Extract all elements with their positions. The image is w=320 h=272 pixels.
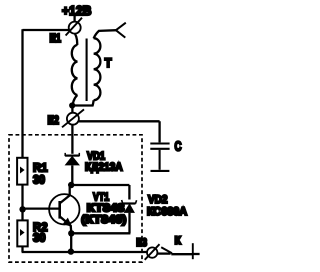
wire: VD1 to collector node: [71, 166, 73, 186]
connector: HV output fork: [116, 23, 126, 38]
junction: emitter on bottom rail: [68, 248, 74, 254]
capacitor C: [150, 144, 169, 170]
wire: E2 down into module to VD1: [71, 125, 73, 154]
transformer T primary winding: [72, 45, 78, 95]
transistor VT1 collector lead: [60, 186, 70, 204]
svg-text:КД213А: КД213А: [85, 162, 123, 174]
wire: E3 to switch: [157, 252, 170, 254]
junction: emitter node: [68, 230, 74, 236]
svg-text:(КТ840): (КТ840): [81, 214, 126, 226]
transistor VT1 emitter lead: [60, 216, 72, 232]
svg-text:КС680А: КС680А: [147, 206, 187, 218]
junction: collector node: [68, 182, 74, 188]
wire: top horizontal from left corner to E1: [23, 29, 69, 31]
transistor VT1 base bar: [58, 201, 61, 219]
diode VD1: [65, 153, 79, 165]
connector E2 (plug/socket): [62, 109, 84, 127]
wire: R2 bottom to rail corner: [21, 246, 23, 252]
svg-text:30: 30: [33, 172, 45, 186]
junction: base/divider node on rail: [19, 206, 25, 212]
wire: rail between R1 and R2: [21, 185, 23, 221]
wire: left rail from top corner down to R1: [21, 29, 23, 158]
switch K blade: [161, 247, 172, 253]
svg-text:VD2: VD2: [148, 194, 168, 206]
svg-text:Т: Т: [105, 56, 112, 70]
wire: collector node right to VD2 branch: [71, 185, 129, 200]
wire: secondary top to HV output: [94, 30, 117, 38]
transformer core: [86, 39, 88, 102]
svg-text:Е3: Е3: [136, 237, 147, 249]
connector E1 (plug/socket): [66, 14, 82, 36]
svg-text:К: К: [175, 235, 181, 247]
svg-text:С: С: [175, 139, 182, 154]
wire: base lead from rail: [25, 207, 59, 209]
svg-text:VD1: VD1: [87, 150, 105, 162]
transistor VT1 body: [49, 194, 79, 224]
wire: E2 node right to capacitor: [79, 121, 160, 142]
wire: VD2 anode down and left to emitter node: [71, 213, 130, 234]
wire: emitter node down to bottom rail: [70, 233, 72, 252]
wire: stub right of contact bar: [193, 253, 199, 255]
junction: windings common node: [69, 102, 75, 108]
wire: switch to contact bar: [171, 253, 192, 255]
svg-text:Е1: Е1: [50, 31, 62, 45]
wire: junction to E2: [71, 106, 73, 114]
svg-text:30: 30: [33, 230, 46, 244]
wire: bottom rail: [22, 251, 148, 253]
connector E3 (plug/socket): [145, 244, 160, 260]
svg-text:+12В: +12В: [62, 3, 92, 18]
wire: primary bottom down to junction: [72, 95, 77, 106]
resistor R1: [17, 158, 27, 185]
wire: E1 down to transformer primary: [75, 34, 77, 46]
transistor VT1 emitter arrow: [64, 219, 72, 226]
svg-text:VT1: VT1: [93, 191, 109, 203]
chassis terminal bar under C: [151, 170, 170, 172]
wire: secondary bottom jog to junction: [72, 100, 94, 105]
dashed enclosure (module boundary): [9, 135, 142, 262]
svg-text:Е2: Е2: [48, 113, 60, 127]
svg-text:КТ848: КТ848: [87, 203, 125, 215]
zener diode VD2: [122, 200, 137, 212]
switch K contact bar: [192, 243, 194, 259]
resistor R2: [17, 220, 27, 246]
transformer T secondary winding: [94, 38, 101, 100]
